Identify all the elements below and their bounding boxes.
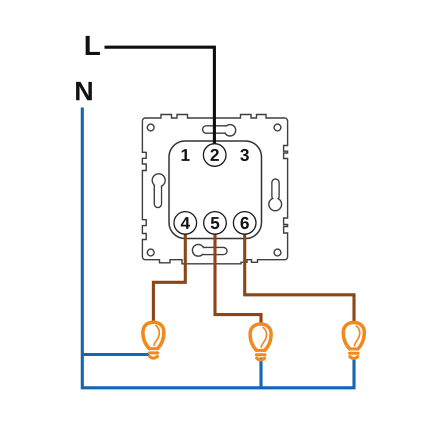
switch mounting plate outline: [142, 115, 287, 264]
terminal 2: [203, 144, 226, 167]
terminal 3 label: [240, 149, 249, 161]
label L (line): [86, 36, 100, 55]
screw hole bottom-right: [274, 249, 281, 256]
keyhole slot right: [269, 179, 282, 211]
wire brown terminal 4 to lamp E1: [153, 229, 185, 323]
lamp E1: [143, 322, 164, 358]
wire blue stem from lamp E2 to bottom run: [259, 358, 262, 388]
terminal 5: [204, 212, 227, 235]
wire brown terminal 5 to lamp E2: [215, 229, 261, 324]
label N (neutral): [76, 82, 92, 100]
lamp E2: [250, 324, 271, 360]
screw hole top-right: [274, 124, 281, 131]
keyhole slot bottom: [192, 244, 227, 256]
wire L black: from L label right then down into terminal 2: [105, 47, 215, 149]
switch insert rounded square: [169, 141, 262, 239]
terminal 4: [174, 212, 197, 235]
screw hole top-left: [147, 124, 154, 131]
keyhole slot top: [203, 125, 236, 136]
screw hole bottom-left: [147, 249, 154, 256]
terminal 6: [233, 212, 256, 235]
wire N blue: down the left side, bottom run, up to lamp E3: [82, 108, 354, 388]
terminal 1 label: [182, 149, 190, 161]
keyhole slot left: [152, 174, 165, 208]
lamp E3: [343, 323, 364, 359]
wire blue branch to lamp E1 base: [82, 353, 149, 356]
wire brown terminal 6 to lamp E3: [245, 229, 354, 323]
